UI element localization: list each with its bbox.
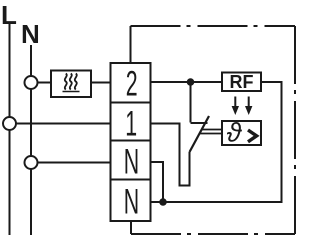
wire L rail (9, 22, 11, 235)
dash-dot device border right (294, 26, 296, 234)
wire terminal 2 to RF (151, 81, 223, 83)
svg-text:RF: RF (230, 72, 254, 92)
node terminal circle on N rail (heater feed) (25, 76, 38, 89)
wire L to terminal 1 (10, 123, 111, 125)
wire RF output loop to N junction (151, 82, 282, 202)
heating element load (51, 71, 91, 98)
RF signal arrow 2 (245, 97, 252, 116)
node junction dot N terminals (159, 198, 167, 206)
svg-text:2: 2 (126, 65, 138, 104)
dash-dot device border bottom (131, 233, 295, 235)
RF signal arrow 1 (232, 97, 239, 116)
node terminal circle on L rail (terminal 1 feed) (3, 117, 16, 130)
chevron symbol (248, 130, 257, 142)
svg-text:1: 1 (125, 105, 137, 144)
terminal block (111, 63, 151, 222)
wire N rail (30, 45, 32, 235)
node terminal circle on N rail (terminal N feed) (25, 156, 38, 169)
wire terminal 1 to switch pivot (151, 124, 190, 186)
dash-dot device border top (131, 25, 296, 27)
wire N to terminal N (31, 162, 110, 164)
switch blade (190, 116, 210, 152)
wire terminal N1 to junction (151, 162, 164, 202)
receiver thermostat box (222, 118, 261, 148)
svg-text:N: N (124, 183, 139, 222)
node junction dot terminal2/RF/switch (187, 78, 195, 86)
svg-text:N: N (21, 19, 40, 49)
switch actuator double link (201, 129, 222, 131)
switch fixed contact (190, 82, 192, 123)
wire heater feed (N rail to terminal 2) (31, 82, 110, 84)
dash-dot device border left bottom (130, 221, 132, 234)
svg-text:N: N (124, 143, 139, 182)
dash-dot device border left top (130, 26, 132, 63)
svg-text:ϑ: ϑ (227, 118, 243, 148)
RF module box (222, 72, 261, 92)
